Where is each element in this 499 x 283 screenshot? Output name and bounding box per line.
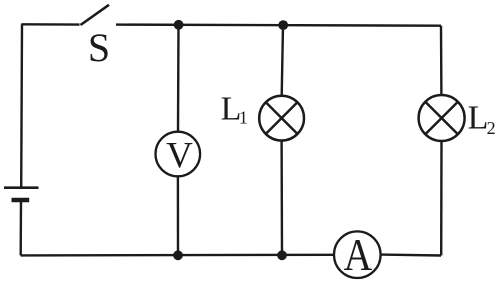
node junction dot bottom lamp L1 [277,250,287,260]
label L2 [468,99,496,138]
wire left vertical upper [20,24,23,188]
wire right vertical lower [440,141,443,256]
node junction dot top voltmeter [174,20,184,30]
ammeter A [334,229,381,280]
wire top-left horizontal [21,23,79,26]
wire voltmeter branch lower [177,176,180,255]
svg-text:L: L [468,99,489,136]
wire left vertical lower [20,200,23,255]
svg-text:S: S [88,25,110,70]
node junction dot top lamp L1 [278,20,288,30]
wire top-right horizontal [116,25,441,26]
wire bottom-left horizontal [21,254,334,257]
svg-text:A: A [344,229,373,280]
lamp L2 [419,95,465,141]
switch S blade [81,5,110,25]
wire lamp L1 branch lower [280,140,283,255]
wire bottom-right horizontal [381,253,441,256]
svg-text:1: 1 [239,108,248,128]
lamp L1 [259,96,304,141]
voltmeter V [156,132,201,177]
wire lamp L1 branch upper [282,25,283,96]
wire voltmeter branch upper [177,25,180,132]
wire right vertical upper [440,26,443,96]
node junction dot bottom voltmeter [173,250,183,260]
svg-text:2: 2 [487,118,496,138]
label L1 [221,90,248,127]
battery long plate [4,186,39,189]
battery short plate [12,198,30,203]
svg-text:V: V [166,136,193,177]
